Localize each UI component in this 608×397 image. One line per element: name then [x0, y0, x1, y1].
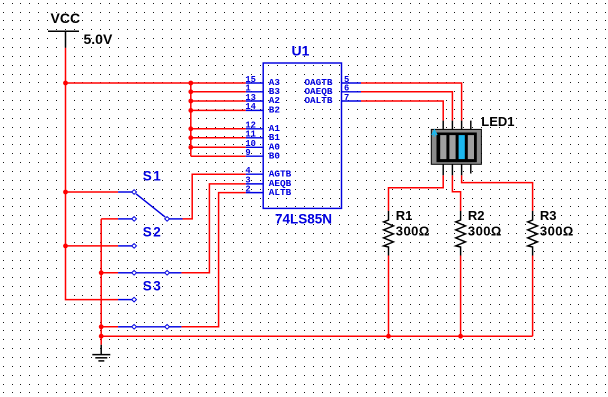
svg-text:OALTB: OALTB [304, 95, 332, 106]
wire S1 pole to pin4 [183, 174, 246, 219]
svg-text:74LS85N: 74LS85N [275, 211, 332, 226]
wire LED pin2 bottom to R2 [452, 175, 460, 211]
switch S2 [118, 246, 181, 273]
wire S3 pole to pin2 [181, 193, 245, 327]
chip left pin leads [246, 83, 263, 193]
wire ground rail to S1 bottom throw [101, 218, 118, 220]
wire VCC to S2 top throw [66, 245, 119, 247]
wire pin10 row [191, 146, 246, 148]
wire pin9 row [191, 155, 246, 157]
svg-text:U1: U1 [292, 42, 310, 58]
svg-text:S2: S2 [143, 224, 163, 239]
pin numbers left [245, 75, 256, 195]
svg-text:R3: R3 [540, 208, 557, 223]
svg-text:300Ω: 300Ω [396, 224, 430, 239]
bottom pin stubs [443, 164, 471, 175]
svg-text:B2: B2 [269, 105, 281, 116]
svg-text:7: 7 [344, 93, 349, 103]
svg-text:VCC: VCC [51, 10, 81, 26]
wire ground rail to S3 pole row [101, 326, 118, 328]
svg-text:LED1: LED1 [481, 114, 514, 129]
svg-text:R1: R1 [396, 208, 413, 223]
svg-text:300Ω: 300Ω [468, 224, 502, 239]
junction pin10 row [188, 145, 193, 150]
wire LED pin1 bottom to R1 [389, 175, 444, 211]
svg-text:S1: S1 [143, 168, 163, 183]
junction pin11 row [188, 135, 193, 140]
svg-text:11: 11 [245, 130, 256, 140]
top pin stubs [443, 121, 471, 130]
junction ground rail / S3 pole row [99, 324, 104, 329]
wire pin12 row [191, 128, 246, 130]
svg-text:14: 14 [245, 102, 256, 112]
junction pin12 row [188, 126, 193, 131]
wire pin1 row [191, 91, 246, 93]
wire LED pin3 bottom to R3 [462, 175, 533, 211]
switch S1 [118, 192, 182, 219]
wire VCC to pin15 row [66, 82, 246, 84]
resistor R2 [456, 211, 466, 256]
junction VCC rail / S2 top throw [63, 244, 68, 249]
junction chip feed / pin15 row [188, 81, 193, 86]
svg-text:4: 4 [245, 166, 251, 176]
svg-text:300Ω: 300Ω [540, 224, 574, 239]
wire VCC rail vertical to S3 top throw [66, 48, 119, 300]
svg-text:ALTB: ALTB [269, 187, 292, 198]
junction VCC rail / pin15 wire [63, 81, 68, 86]
chip inner pin labels left [269, 77, 292, 198]
wire pin6 to LED pin2 [361, 92, 452, 121]
resistor R1 [384, 211, 394, 256]
wire pin7 to LED pin1 [361, 101, 443, 121]
wire pin5 to LED pin3 [361, 83, 462, 121]
svg-text:S3: S3 [143, 278, 163, 293]
wire R2 bottom [460, 256, 462, 337]
junction bottom rail / R2 [458, 334, 463, 339]
body [431, 129, 481, 164]
wire ground rail to S2 pole row [101, 272, 118, 274]
chip inner pin labels right [304, 77, 332, 106]
wire pin11 row [191, 137, 246, 139]
wire bottom rail [101, 335, 532, 337]
junction pin1 row [188, 89, 193, 94]
pin numbers right [344, 75, 349, 103]
junction pin13 row [188, 99, 193, 104]
VCC power symbol [48, 31, 79, 48]
wire pin14 row [191, 109, 246, 111]
resistor R3 [528, 211, 538, 256]
svg-text:9: 9 [245, 148, 250, 158]
svg-text:R2: R2 [468, 208, 485, 223]
wire pin13 row [191, 100, 246, 102]
junction pin14 row [188, 108, 193, 113]
bars [440, 135, 446, 159]
op-amp U1 74LS85N chip body [246, 63, 361, 208]
wire ground rail vertical [100, 219, 102, 345]
wire S2 pole to pin3 [181, 184, 245, 273]
cyan arrow [432, 130, 437, 136]
junction bottom rail / R1 [386, 334, 391, 339]
wire chip feed vertical [190, 83, 192, 156]
chip right pin leads [342, 83, 362, 101]
junction ground rail / S2 pole row [99, 270, 104, 275]
svg-text:B0: B0 [269, 150, 281, 161]
LED1 bargraph [431, 121, 481, 176]
junction VCC rail / S1 top throw [63, 190, 68, 195]
svg-text:5.0V: 5.0V [84, 31, 113, 47]
wire R3 bottom [532, 256, 534, 337]
ground [92, 345, 110, 361]
svg-text:2: 2 [245, 184, 250, 194]
switch S3 [118, 300, 181, 327]
wire VCC to S1 top throw [66, 191, 119, 193]
junction ground rail / bottom rail [99, 334, 104, 339]
wire R1 bottom [388, 256, 390, 337]
